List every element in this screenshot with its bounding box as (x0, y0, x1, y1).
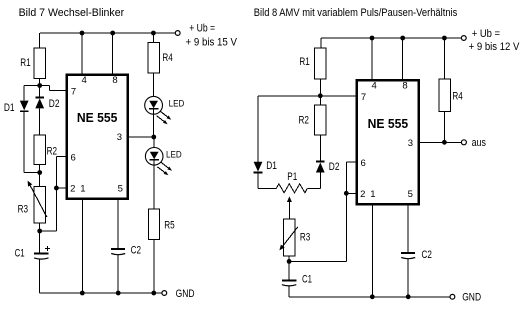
svg-text:R2: R2 (47, 145, 57, 157)
svg-text:NE 555: NE 555 (368, 117, 409, 131)
svg-text:3: 3 (408, 138, 413, 149)
svg-text:8: 8 (112, 75, 117, 86)
svg-text:6: 6 (71, 152, 76, 163)
svg-text:+ 9 bis 12 V: + 9 bis 12 V (469, 41, 520, 53)
svg-text:Bild 7 Wechsel-Blinker: Bild 7 Wechsel-Blinker (19, 7, 125, 19)
svg-text:R3: R3 (18, 204, 28, 216)
svg-text:R1: R1 (20, 57, 30, 69)
svg-text:D2: D2 (329, 161, 340, 173)
svg-text:1: 1 (370, 189, 375, 200)
svg-text:C1: C1 (302, 273, 312, 285)
svg-text:R3: R3 (300, 232, 310, 244)
svg-text:6: 6 (361, 158, 366, 169)
svg-text:1: 1 (80, 184, 85, 195)
svg-text:D1: D1 (266, 160, 277, 172)
svg-text:NE 555: NE 555 (77, 111, 118, 125)
svg-text:+ Ub =: + Ub = (189, 23, 215, 35)
svg-text:Bild 8 AMV mit variablem Puls/: Bild 8 AMV mit variablem Puls/Pausen-Ver… (254, 7, 458, 19)
svg-text:D2: D2 (49, 98, 60, 110)
svg-text:+ Ub =: + Ub = (472, 28, 500, 40)
svg-text:5: 5 (118, 184, 123, 195)
svg-text:R5: R5 (164, 220, 174, 232)
svg-text:5: 5 (408, 189, 413, 200)
svg-text:GND: GND (462, 292, 481, 304)
svg-text:D1: D1 (4, 102, 15, 114)
svg-text:4: 4 (81, 75, 86, 86)
svg-text:R4: R4 (162, 52, 172, 64)
svg-text:7: 7 (71, 87, 76, 98)
svg-text:8: 8 (402, 81, 407, 92)
svg-text:C1: C1 (15, 248, 25, 260)
svg-text:3: 3 (117, 132, 122, 143)
svg-text:P1: P1 (287, 171, 297, 183)
svg-text:C2: C2 (422, 249, 432, 261)
svg-text:7: 7 (361, 92, 366, 103)
svg-text:+ 9 bis 15 V: + 9 bis 15 V (186, 37, 238, 49)
svg-text:R1: R1 (299, 56, 309, 68)
svg-text:4: 4 (371, 81, 376, 92)
svg-text:C2: C2 (131, 244, 141, 256)
svg-text:aus: aus (472, 137, 487, 149)
svg-text:2: 2 (360, 189, 365, 200)
svg-text:LED: LED (166, 149, 182, 160)
svg-text:GND: GND (176, 288, 195, 300)
svg-text:R2: R2 (299, 114, 309, 126)
svg-text:2: 2 (70, 184, 75, 195)
svg-text:R4: R4 (452, 91, 462, 103)
svg-text:LED: LED (169, 99, 185, 110)
